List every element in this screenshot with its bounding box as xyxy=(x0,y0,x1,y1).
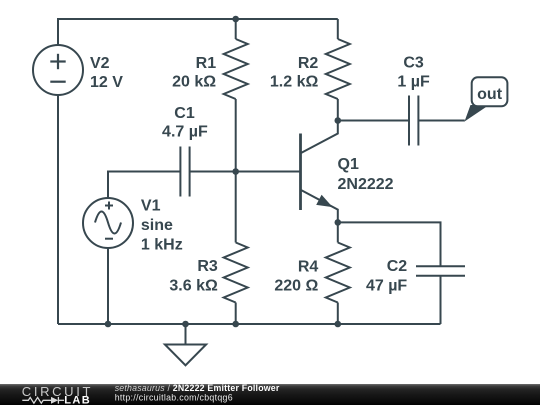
capacitor C2 xyxy=(416,266,465,275)
svg-text:3.6 kΩ: 3.6 kΩ xyxy=(169,278,218,295)
wire emitter to C2 xyxy=(338,222,441,266)
capacitor C1 xyxy=(180,147,189,197)
node junction R4 bottom xyxy=(335,321,342,328)
svg-text:Q1: Q1 xyxy=(338,156,359,173)
svg-text:C3: C3 xyxy=(403,55,424,72)
svg-text:20 kΩ: 20 kΩ xyxy=(172,74,216,91)
svg-text:R2: R2 xyxy=(298,55,319,72)
wire C2 bottom xyxy=(440,276,442,324)
svg-text:47 µF: 47 µF xyxy=(366,278,407,295)
wire C1 to base node xyxy=(190,171,236,173)
label Q1 value xyxy=(338,156,394,193)
node junction emitter xyxy=(335,219,342,226)
wire collector to C3 xyxy=(338,120,409,122)
footer bar xyxy=(0,384,540,405)
svg-text:R3: R3 xyxy=(197,258,218,275)
svg-text:V1: V1 xyxy=(141,198,161,215)
label V1 value xyxy=(141,198,183,254)
node junction R1 top xyxy=(232,16,239,23)
svg-text:out: out xyxy=(477,86,503,103)
wire V1 bottom xyxy=(107,248,109,324)
svg-text:C2: C2 xyxy=(387,258,408,275)
voltage source V1 xyxy=(83,198,133,248)
label V2 value xyxy=(90,55,123,91)
label C2 value xyxy=(366,258,407,294)
svg-text:12 V: 12 V xyxy=(90,74,123,91)
wire base node to Q1 base xyxy=(236,171,301,173)
svg-text:R1: R1 xyxy=(196,55,217,72)
label R2 value xyxy=(270,55,319,91)
node junction collector xyxy=(335,117,342,124)
svg-text:1.2 kΩ: 1.2 kΩ xyxy=(270,74,319,91)
label R1 value xyxy=(172,55,216,91)
resistor R1 xyxy=(224,19,248,172)
svg-text:1 kHz: 1 kHz xyxy=(141,237,183,254)
svg-text:R4: R4 xyxy=(298,258,319,275)
label R4 value xyxy=(274,258,318,294)
wire V1 top to C1 xyxy=(108,172,180,199)
svg-text:LAB: LAB xyxy=(64,395,91,405)
wire V2 bottom to ground rail xyxy=(57,95,59,324)
label C1 value xyxy=(162,105,208,141)
resistor R3 xyxy=(224,172,248,325)
wire C3 to out flag xyxy=(418,120,464,122)
voltage source V2 xyxy=(33,45,83,95)
logo CircuitLab wordmark xyxy=(22,384,93,405)
svg-text:http://circuitlab.com/cbqtqg6: http://circuitlab.com/cbqtqg6 xyxy=(115,393,233,403)
capacitor C3 xyxy=(409,96,418,146)
svg-text:1 µF: 1 µF xyxy=(397,74,430,91)
svg-text:C1: C1 xyxy=(174,105,195,122)
node junction R3 bottom xyxy=(232,321,239,328)
label C3 value xyxy=(397,55,430,91)
resistor R4 xyxy=(326,222,350,324)
node junction V1 bottom xyxy=(105,321,112,328)
resistor R2 xyxy=(326,19,350,121)
node junction ground xyxy=(182,321,189,328)
label R3 value xyxy=(169,258,218,294)
svg-text:sine: sine xyxy=(141,217,173,234)
svg-text:2N2222: 2N2222 xyxy=(338,176,394,193)
wire top rail xyxy=(58,19,338,45)
transistor Q1 xyxy=(301,121,338,223)
logo resistor zigzag and diode xyxy=(22,397,64,404)
wire bottom rail xyxy=(58,323,441,325)
ground xyxy=(165,324,206,365)
svg-text:V2: V2 xyxy=(90,55,110,72)
node out flag xyxy=(465,77,508,121)
node junction base xyxy=(232,168,239,175)
svg-text:4.7 µF: 4.7 µF xyxy=(162,124,208,141)
svg-text:sethasaurus / 2N2222 Emitter F: sethasaurus / 2N2222 Emitter Follower xyxy=(115,383,280,393)
footer title text xyxy=(115,383,280,403)
svg-text:220 Ω: 220 Ω xyxy=(274,278,318,295)
